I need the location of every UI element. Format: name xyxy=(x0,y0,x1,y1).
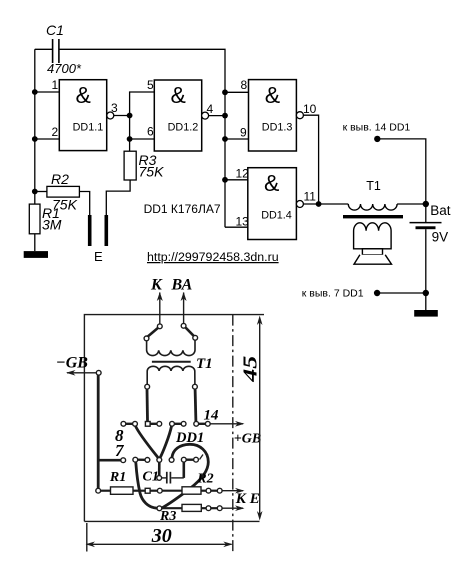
node R2 left xyxy=(32,189,38,195)
trace T1 top right diagonal xyxy=(185,327,194,336)
svg-text:9V: 9V xyxy=(432,230,449,245)
arrow K E top xyxy=(222,490,243,492)
trace 2-curve xyxy=(162,444,209,508)
pads R3 right xyxy=(206,506,211,511)
wire battery to ground xyxy=(425,229,427,310)
svg-text:R2: R2 xyxy=(196,471,213,486)
wire R3 bottom to electrode xyxy=(106,180,130,215)
trace top row 3-4 xyxy=(150,423,157,425)
svg-text:T1: T1 xyxy=(366,179,381,193)
gate DD1.3 xyxy=(249,80,297,151)
wire pin13 xyxy=(225,226,248,228)
svg-text:2: 2 xyxy=(52,125,59,139)
wire 7 lead to rail xyxy=(377,292,426,294)
resistor R1 pcb xyxy=(111,487,134,494)
svg-text:E: E xyxy=(94,249,103,264)
node out4 xyxy=(222,113,228,119)
trace top row 1-2 xyxy=(126,423,133,425)
pad -GB xyxy=(96,370,101,375)
node 14 lead xyxy=(374,136,380,142)
trace pin7 branch xyxy=(98,459,121,462)
svg-text:75K: 75K xyxy=(139,164,165,180)
wire left rail xyxy=(34,49,36,204)
wire 14 lead to rail xyxy=(377,139,426,223)
svg-text:&: & xyxy=(171,82,186,108)
output bubble pin11 xyxy=(296,201,303,208)
svg-text:8: 8 xyxy=(241,78,248,92)
svg-text:R2: R2 xyxy=(51,171,69,187)
svg-text:3: 3 xyxy=(111,101,118,115)
svg-text:−GB: −GB xyxy=(56,355,88,372)
svg-text:4700*: 4700* xyxy=(47,61,82,76)
trace T1 right down xyxy=(194,389,198,421)
output bubble pin10 xyxy=(296,112,303,119)
pad T1 bottom left xyxy=(145,384,150,389)
svg-text:10: 10 xyxy=(303,102,317,116)
svg-text:9: 9 xyxy=(240,126,247,140)
pad square mid xyxy=(145,488,150,493)
svg-text:http://299792458.3dn.ru: http://299792458.3dn.ru xyxy=(147,250,279,264)
trace T1 top left diagonal xyxy=(148,328,159,337)
node rail 7 xyxy=(423,290,429,296)
trace T1 left down xyxy=(146,389,149,421)
arrow -GB xyxy=(67,372,97,374)
arrow +GB xyxy=(210,423,243,425)
resistor R2 xyxy=(47,186,80,197)
speaker cone xyxy=(354,255,392,264)
dim 30 line xyxy=(87,543,232,545)
trace bottom row 6-7 xyxy=(186,459,193,461)
svg-text:3M: 3M xyxy=(42,217,62,233)
node pin2 xyxy=(32,136,38,142)
pads chip bottom row xyxy=(121,458,126,463)
transformer T1 primary coil xyxy=(348,204,397,210)
capacitor C1 pcb xyxy=(162,477,166,479)
speaker magnet xyxy=(362,249,382,255)
svg-text:&: & xyxy=(265,82,280,108)
wire R2 left xyxy=(35,191,47,193)
gate DD1.4 xyxy=(248,168,297,240)
svg-text:T1: T1 xyxy=(196,356,213,372)
node pin9 xyxy=(222,136,228,142)
svg-text:К Е: К Е xyxy=(235,491,260,507)
svg-text:ВА: ВА xyxy=(171,277,193,294)
trace left loop xyxy=(136,462,157,508)
gate DD1.1 xyxy=(59,80,106,151)
svg-text:11: 11 xyxy=(304,190,317,204)
node pin1 xyxy=(32,89,38,95)
trace V left diagonal xyxy=(136,426,159,458)
trace R2 right xyxy=(201,490,206,492)
trace top row 7-8 xyxy=(199,423,206,425)
trace pad to R2 xyxy=(162,490,182,492)
wire pin12 xyxy=(225,179,248,181)
trace R3 left lead xyxy=(162,507,182,509)
node T1 battery xyxy=(423,201,429,207)
output bubble pin3 xyxy=(107,112,114,119)
output bubble pin4 xyxy=(202,112,209,119)
pcb board right edge dashdot xyxy=(232,315,234,552)
wire out4 to rail xyxy=(209,115,225,117)
pad T1 mid left xyxy=(144,336,149,341)
electrode E right bar xyxy=(105,215,109,246)
resistor R3 pcb xyxy=(182,504,201,511)
svg-text:6: 6 xyxy=(147,125,154,139)
dim 45 line xyxy=(259,318,261,518)
T1 primary winding xyxy=(147,340,195,355)
svg-text:R3: R3 xyxy=(159,509,176,524)
trace V pad down to C1 xyxy=(158,462,161,475)
pad T1 top left xyxy=(157,324,162,329)
svg-text:14: 14 xyxy=(204,408,220,424)
pcb board outline xyxy=(84,315,264,522)
wire pin6 xyxy=(130,138,155,140)
pads R2 right xyxy=(206,488,211,493)
T1 secondary winding xyxy=(147,366,195,384)
pad T1 top right xyxy=(181,323,186,328)
node pin6 xyxy=(127,136,133,142)
ground left xyxy=(24,251,48,258)
wire out3 to node xyxy=(114,115,130,117)
trace V right diagonal xyxy=(160,426,172,458)
wire out10 down to out11 node xyxy=(303,115,318,204)
svg-text:+GB: +GB xyxy=(234,432,261,447)
dim 30 extension left xyxy=(86,523,88,552)
svg-text:к выв. 14 DD1: к выв. 14 DD1 xyxy=(343,122,411,134)
trace square to pad xyxy=(150,490,157,492)
speaker body xyxy=(354,223,392,249)
wire mid rail xyxy=(130,92,155,139)
pin1 tick xyxy=(200,455,204,460)
battery Bat short plate xyxy=(416,226,436,229)
svg-text:к выв. 7 DD1: к выв. 7 DD1 xyxy=(302,288,364,300)
svg-text:DD1.2: DD1.2 xyxy=(168,121,199,133)
svg-text:DD1.3: DD1.3 xyxy=(262,121,293,133)
pad R1 left xyxy=(96,488,101,493)
wire R1 bottom xyxy=(34,234,36,251)
svg-text:5: 5 xyxy=(147,78,154,92)
svg-text:1: 1 xyxy=(52,78,59,92)
svg-text:R1: R1 xyxy=(109,470,126,485)
trace top row 5-6 xyxy=(174,423,181,425)
node out3 xyxy=(127,113,133,119)
capacitor C1 xyxy=(53,39,59,63)
svg-text:Bat: Bat xyxy=(430,203,451,218)
wire out11 to T1 xyxy=(303,203,348,205)
svg-text:DD1.4: DD1.4 xyxy=(261,209,292,221)
svg-text:C1: C1 xyxy=(143,470,159,485)
wire top rail left segment xyxy=(35,48,53,50)
node out11 junction xyxy=(316,201,322,207)
wire pin9 xyxy=(225,138,249,140)
trace left rail xyxy=(97,375,100,490)
svg-text:C1: C1 xyxy=(46,22,64,38)
node pin8 xyxy=(222,89,228,95)
svg-text:DD1 К176ЛА7: DD1 К176ЛА7 xyxy=(144,202,221,216)
battery Bat long plate xyxy=(410,222,442,224)
arrow K VA left xyxy=(159,293,161,327)
pad R3 left xyxy=(157,506,162,511)
trace R3 right xyxy=(201,507,206,509)
node pin12 xyxy=(222,177,228,183)
pad mid circle xyxy=(157,488,162,493)
wire top rail right segment xyxy=(59,49,225,227)
transformer core xyxy=(343,215,403,218)
arrow K VA right xyxy=(183,293,185,326)
trace C1 right up xyxy=(183,462,186,478)
wire R2 right to electrode xyxy=(79,192,89,216)
svg-text:&: & xyxy=(264,170,279,196)
resistor R2 pcb xyxy=(182,487,201,494)
wire pin8 xyxy=(225,91,249,93)
resistor R1 xyxy=(29,204,40,234)
wire R3 top xyxy=(129,139,131,151)
pad C1 left xyxy=(157,476,162,481)
trace bottom row 2-3 xyxy=(138,459,145,461)
T1 core line xyxy=(152,361,191,363)
svg-text:К: К xyxy=(150,277,163,294)
pads chip top row xyxy=(121,421,126,426)
svg-text:30: 30 xyxy=(151,525,172,547)
electrode E left bar xyxy=(88,215,92,246)
pad T1 mid right xyxy=(193,335,198,340)
resistor R3 xyxy=(124,151,136,180)
svg-text:DD1.1: DD1.1 xyxy=(73,121,104,133)
svg-text:&: & xyxy=(76,82,91,108)
wire T1 to battery node xyxy=(397,203,426,205)
pad T1 bottom right xyxy=(193,384,198,389)
wire pin1 xyxy=(35,91,60,93)
svg-text:4: 4 xyxy=(207,102,214,116)
arrow K E bottom xyxy=(222,507,243,509)
svg-text:45: 45 xyxy=(240,356,262,383)
gate DD1.2 xyxy=(154,80,201,151)
ground right xyxy=(414,310,438,317)
trace R1 right xyxy=(133,490,145,492)
node 7 lead xyxy=(374,290,380,296)
wire pin2 xyxy=(35,138,60,140)
